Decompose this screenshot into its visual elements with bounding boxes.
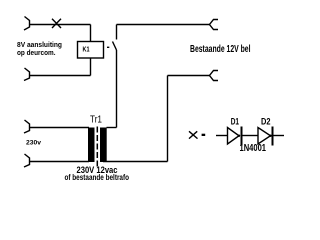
svg-text:1N4001: 1N4001: [240, 143, 267, 154]
terminal J1 (8V line a): [24, 17, 30, 31]
wire D1 to D2: [243, 135, 259, 137]
terminal J3 (bell a): [210, 20, 219, 30]
fuse/contact X symbol: [52, 19, 61, 28]
wire vertical up: [167, 76, 169, 162]
terminal J6 (230V b): [24, 154, 30, 167]
diode D2 triangle: [258, 128, 271, 145]
diode D2 cathode bar: [272, 127, 274, 146]
relay coil K1 box: [78, 42, 104, 59]
relay contact bottom lead (down to transformer secondary): [116, 50, 118, 128]
diode D1 junction dot: [238, 135, 240, 137]
wire secondary bottom: [103, 161, 168, 163]
terminal J5 (230V a): [24, 120, 30, 133]
transformer Tr1 primary winding bar: [88, 128, 95, 163]
wire diode row left: [216, 135, 228, 137]
relay contact switch top lead: [116, 25, 118, 40]
wire primary bottom: [30, 161, 89, 163]
relay contact blade: [113, 42, 117, 51]
wire J1 to fuse X: [30, 24, 91, 26]
wire corner down to relay coil K1: [90, 25, 92, 42]
wire K1 bottom down: [90, 58, 92, 76]
transformer Tr1 core dashed line: [96, 127, 98, 167]
diode D2 junction dot: [269, 135, 271, 137]
svg-text:op deurcom.: op deurcom.: [17, 48, 56, 57]
wire left to terminal J2: [30, 75, 91, 77]
terminal J2 (8V line b): [24, 68, 30, 81]
transformer Tr1 secondary winding bar: [100, 128, 107, 163]
terminal J4 (bell b): [210, 71, 219, 81]
dashed link K1 to contact: [107, 46, 109, 48]
wire primary top: [30, 127, 89, 129]
svg-text:Bestaande 12V bel: Bestaande 12V bel: [190, 44, 251, 55]
svg-text:of bestaande beltrafo: of bestaande beltrafo: [65, 173, 130, 182]
diode D1 triangle: [228, 128, 240, 145]
svg-text:D1: D1: [231, 116, 239, 126]
wire switch to bell terminal: [117, 24, 210, 26]
svg-text:K1: K1: [83, 45, 90, 54]
wire diode row right: [274, 135, 285, 137]
wire right to bell terminal: [168, 75, 210, 77]
svg-text:Tr1: Tr1: [90, 115, 102, 126]
dot after X mark: [202, 134, 206, 136]
X mark (spare contact): [189, 131, 198, 138]
svg-text:D2: D2: [261, 116, 271, 126]
diode D1 cathode bar: [241, 127, 243, 146]
wire secondary top jog: [107, 127, 117, 129]
svg-text:230v: 230v: [26, 140, 41, 147]
